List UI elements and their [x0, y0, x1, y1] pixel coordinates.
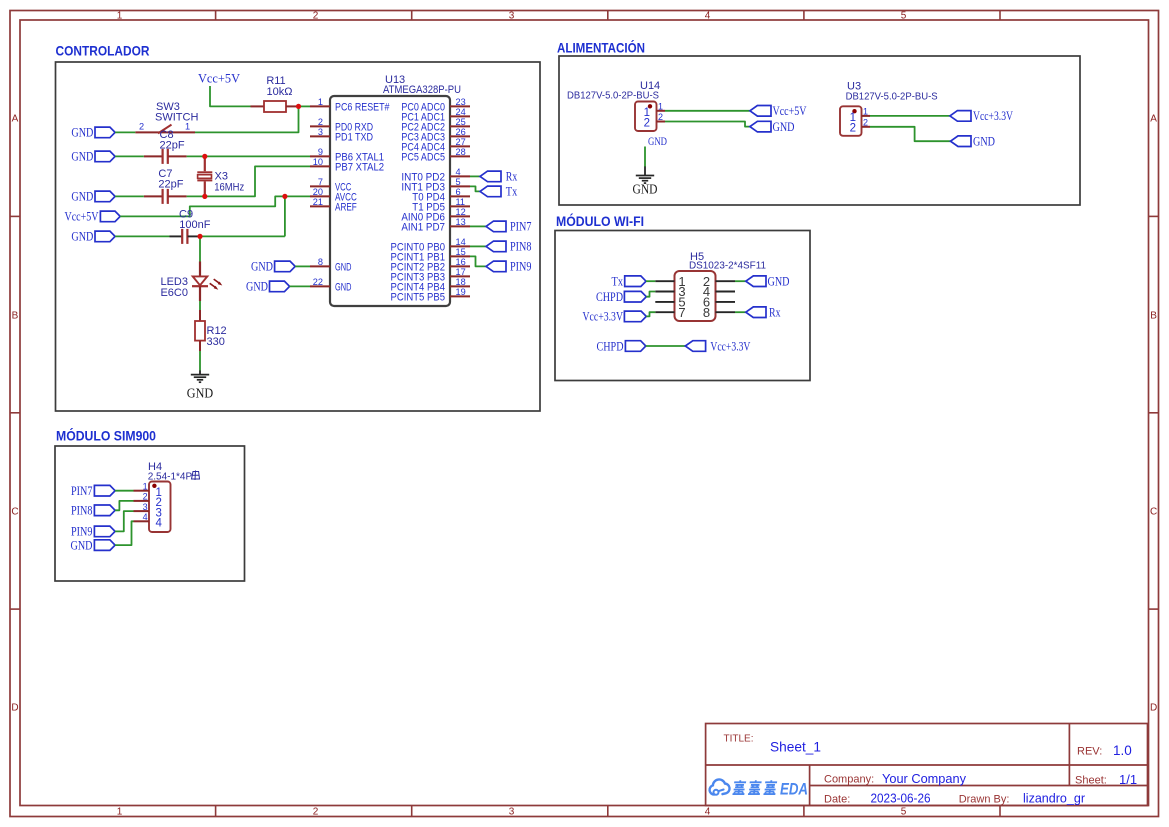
- svg-text:PC6 RESET#: PC6 RESET#: [335, 101, 390, 113]
- junction X3 bottom: [202, 194, 207, 199]
- svg-text:GND: GND: [768, 275, 790, 289]
- company label: [824, 774, 874, 786]
- svg-text:21: 21: [313, 197, 323, 207]
- svg-text:26: 26: [456, 127, 466, 137]
- connector U14: [567, 80, 665, 131]
- wire SW3 to reset net: [195, 106, 299, 132]
- svg-text:25: 25: [456, 117, 466, 127]
- svg-text:GND: GND: [251, 260, 273, 274]
- svg-text:GND: GND: [71, 150, 93, 164]
- svg-text:4: 4: [705, 806, 711, 817]
- rev label: [1077, 746, 1102, 758]
- svg-text:2: 2: [658, 112, 663, 122]
- junction C9 node: [197, 234, 202, 239]
- section box MODULO SIM900: [55, 446, 245, 581]
- port Vcc+3.3V tie: [685, 339, 750, 353]
- wire GND to C7: [115, 195, 144, 197]
- IC U13 ATMEGA328P-PU: [310, 74, 470, 306]
- svg-text:Sheet:: Sheet:: [1075, 775, 1107, 787]
- svg-text:lizandro_gr: lizandro_gr: [1023, 792, 1085, 806]
- svg-text:Rx: Rx: [506, 170, 518, 184]
- wire U3 pin2 to GND: [870, 127, 951, 141]
- svg-text:CHPD: CHPD: [597, 339, 624, 353]
- drawnby label: [959, 794, 1010, 806]
- svg-text:TITLE:: TITLE:: [724, 734, 754, 745]
- wire C7 to XTAL2 jog: [187, 166, 310, 196]
- wire pin5 to Tx: [470, 186, 480, 191]
- svg-text:2: 2: [143, 492, 148, 502]
- svg-text:2: 2: [139, 122, 144, 132]
- crystal X3: [197, 156, 244, 196]
- company value: [882, 772, 967, 786]
- svg-text:B: B: [1150, 311, 1157, 322]
- wire U14 pin1 to Vcc+5V: [665, 110, 750, 112]
- svg-text:PD1 TXD: PD1 TXD: [335, 131, 373, 143]
- section box MODULO WI-FI: [555, 231, 810, 381]
- port CHPD H5: [596, 290, 646, 304]
- wire Vcc+5V to AVCC: [120, 196, 310, 216]
- svg-text:Drawn By:: Drawn By:: [959, 794, 1010, 806]
- power flag Vcc+5V: [198, 72, 240, 86]
- LED LED3: [160, 262, 222, 302]
- capacitor C7: [144, 168, 187, 204]
- svg-text:GND: GND: [633, 181, 658, 196]
- svg-text:GND: GND: [71, 230, 93, 244]
- svg-text:B: B: [12, 311, 19, 322]
- svg-text:Rx: Rx: [769, 306, 781, 320]
- svg-text:3: 3: [318, 127, 323, 137]
- junction AVCC node: [282, 194, 287, 199]
- svg-text:1: 1: [318, 97, 323, 107]
- wire U14 to ground: [644, 147, 646, 168]
- logo JLC EDA: [710, 779, 808, 798]
- svg-text:Vcc+3.3V: Vcc+3.3V: [710, 339, 750, 353]
- port GND pin8: [251, 260, 295, 274]
- svg-text:12: 12: [456, 207, 466, 217]
- wire PIN9 to H4 pin3: [115, 511, 133, 531]
- port Rx H5: [746, 306, 781, 320]
- connector H4: [134, 461, 200, 532]
- svg-text:330: 330: [207, 336, 225, 348]
- date value: [871, 792, 931, 806]
- svg-text:A: A: [1150, 114, 1157, 125]
- svg-text:AREF: AREF: [335, 201, 357, 213]
- date label: [824, 794, 850, 806]
- svg-text:GND: GND: [773, 120, 795, 134]
- wire pin13 to PIN7: [470, 225, 486, 227]
- svg-text:4: 4: [156, 518, 163, 530]
- svg-text:GND: GND: [335, 261, 351, 273]
- svg-text:23: 23: [456, 97, 466, 107]
- svg-text:GND: GND: [71, 538, 93, 552]
- port Vcc+3.3V U3: [950, 109, 1013, 123]
- port PIN9: [486, 260, 532, 274]
- svg-text:GND: GND: [648, 136, 667, 148]
- sheet value: [1119, 772, 1137, 787]
- wire U14 pin2 to GND: [665, 122, 750, 127]
- svg-text:PIN8: PIN8: [71, 504, 93, 518]
- svg-text:2: 2: [863, 117, 868, 127]
- svg-text:14: 14: [456, 237, 466, 247]
- svg-text:Vcc+5V: Vcc+5V: [65, 209, 99, 223]
- svg-text:1: 1: [185, 122, 190, 132]
- resistor R11: [251, 75, 299, 112]
- svg-text:4: 4: [143, 512, 148, 522]
- svg-text:16: 16: [456, 257, 466, 267]
- port GND pin22: [246, 280, 290, 294]
- section title ALIMENTACION: [557, 38, 645, 55]
- wire PIN7 to H4 pin1: [115, 490, 133, 492]
- svg-text:15: 15: [456, 247, 466, 257]
- svg-text:PB7 XTAL2: PB7 XTAL2: [335, 161, 384, 173]
- wire pin16 to PIN9: [470, 256, 486, 266]
- port GND H5: [746, 275, 790, 289]
- svg-text:GND: GND: [71, 190, 93, 204]
- svg-text:GND: GND: [335, 281, 351, 293]
- wire U3 pin1 to Vcc+3.3V: [870, 115, 950, 117]
- svg-text:28: 28: [456, 147, 466, 157]
- svg-text:PIN7: PIN7: [71, 484, 93, 498]
- wire GND port to SW3: [115, 131, 135, 133]
- switch SW3: [135, 101, 198, 133]
- wire pin14 to PIN8: [470, 245, 486, 247]
- svg-text:1: 1: [143, 482, 148, 492]
- sheet label: [1075, 775, 1107, 787]
- svg-text:1: 1: [117, 806, 123, 817]
- wire H5 pin8 to Rx: [735, 311, 746, 313]
- svg-text:Vcc+5V: Vcc+5V: [773, 104, 807, 118]
- svg-text:2: 2: [313, 806, 319, 817]
- svg-text:2023-06-26: 2023-06-26: [871, 792, 931, 806]
- wire GND to C9: [115, 235, 169, 237]
- svg-text:MÓDULO WI-FI: MÓDULO WI-FI: [556, 212, 644, 229]
- svg-text:1: 1: [658, 102, 663, 112]
- svg-text:C: C: [11, 507, 18, 518]
- svg-text:A: A: [12, 114, 19, 125]
- svg-text:SWITCH: SWITCH: [155, 112, 198, 124]
- svg-text:PIN9: PIN9: [71, 525, 93, 539]
- wire LED3 to R12: [199, 301, 201, 310]
- port Tx H5: [612, 275, 647, 289]
- svg-text:GND: GND: [187, 385, 214, 400]
- wire GND port to pin22: [290, 285, 310, 287]
- svg-text:GND: GND: [973, 135, 995, 149]
- wire H5 pin2 to GND: [735, 280, 746, 282]
- wire R12 to ground: [199, 351, 201, 371]
- port Vcc+3.3V H5: [583, 309, 647, 324]
- svg-text:PCINT5 PB5: PCINT5 PB5: [391, 291, 446, 303]
- svg-text:4: 4: [705, 11, 711, 22]
- svg-text:Vcc+3.3V: Vcc+3.3V: [973, 109, 1013, 123]
- svg-text:4: 4: [456, 167, 461, 177]
- svg-text:Vcc+3.3V: Vcc+3.3V: [583, 309, 624, 324]
- port PIN7 H4: [71, 484, 115, 498]
- wire GND port to pin8: [295, 265, 310, 267]
- svg-text:GND: GND: [71, 126, 93, 140]
- title label: [724, 734, 754, 745]
- wire Tx to H5 pin1: [646, 280, 655, 282]
- sheet name: [770, 739, 821, 755]
- svg-text:D: D: [1150, 703, 1157, 714]
- svg-text:2: 2: [313, 11, 319, 22]
- port Vcc+5V row4: [65, 209, 121, 223]
- svg-text:8: 8: [703, 305, 710, 320]
- wire GND to C8: [115, 155, 144, 157]
- wire R11 to U13 pin1: [299, 105, 311, 107]
- svg-text:E6C0: E6C0: [160, 287, 188, 299]
- connector U3: [840, 81, 938, 136]
- svg-text:17: 17: [456, 267, 466, 277]
- svg-text:5: 5: [901, 806, 907, 817]
- net label GND U14: [648, 136, 667, 148]
- svg-text:11: 11: [456, 197, 466, 207]
- connector H5: [655, 251, 766, 321]
- svg-text:19: 19: [456, 287, 466, 297]
- svg-text:2: 2: [644, 117, 650, 129]
- svg-text:22: 22: [313, 277, 323, 287]
- svg-text:GND: GND: [246, 280, 268, 294]
- section box ALIMENTACION: [559, 56, 1080, 205]
- svg-text:1/1: 1/1: [1119, 772, 1137, 787]
- svg-text:100nF: 100nF: [179, 219, 210, 231]
- svg-text:3: 3: [509, 11, 515, 22]
- wire Vcc+5V to R11: [210, 86, 251, 106]
- port GND U14: [750, 120, 795, 134]
- svg-text:3: 3: [143, 502, 148, 512]
- junction X3 top: [202, 154, 207, 159]
- title block grid: [706, 724, 1148, 806]
- port Tx: [480, 185, 518, 199]
- svg-text:ALIMENTACIÓN: ALIMENTACIÓN: [557, 38, 645, 55]
- svg-text:1.0: 1.0: [1113, 743, 1132, 758]
- svg-text:2: 2: [318, 117, 323, 127]
- wire GND to H4 pin4: [115, 521, 133, 545]
- svg-text:DB127V-5.0-2P-BU-S: DB127V-5.0-2P-BU-S: [846, 91, 938, 102]
- svg-text:27: 27: [456, 137, 466, 147]
- svg-text:7: 7: [318, 177, 323, 187]
- svg-text:5: 5: [456, 177, 461, 187]
- svg-text:PIN9: PIN9: [510, 260, 532, 274]
- section box CONTROLADOR: [56, 62, 541, 411]
- svg-text:10kΩ: 10kΩ: [267, 86, 293, 98]
- svg-text:REV:: REV:: [1077, 746, 1102, 758]
- svg-text:7: 7: [678, 305, 685, 320]
- port PIN9 H4: [71, 525, 115, 539]
- port GND row1: [71, 126, 115, 140]
- svg-text:MÓDULO SIM900: MÓDULO SIM900: [56, 427, 156, 444]
- junction at R11 output: [296, 104, 301, 109]
- wire CHPD to H5 pin3: [646, 292, 655, 297]
- svg-text:PIN8: PIN8: [510, 240, 532, 254]
- wire Vcc+3.3V to H5 pin7: [646, 312, 655, 316]
- svg-text:Your Company: Your Company: [882, 772, 967, 786]
- svg-text:1: 1: [863, 107, 868, 117]
- svg-text:PC5 ADC5: PC5 ADC5: [401, 151, 445, 163]
- capacitor C8: [144, 129, 187, 164]
- ground symbol U14: [633, 167, 658, 197]
- svg-text:16MHz: 16MHz: [214, 182, 244, 194]
- svg-text:20: 20: [313, 187, 323, 197]
- svg-text:24: 24: [456, 107, 466, 117]
- svg-text:CONTROLADOR: CONTROLADOR: [56, 43, 150, 59]
- svg-text:22pF: 22pF: [158, 179, 183, 191]
- port GND H4: [71, 538, 116, 552]
- section title MODULO WI-FI: [556, 212, 644, 229]
- svg-text:Date:: Date:: [824, 794, 850, 806]
- svg-text:13: 13: [456, 217, 466, 227]
- svg-text:DS1023-2*4SF11: DS1023-2*4SF11: [689, 261, 766, 272]
- svg-text:Company:: Company:: [824, 774, 874, 786]
- svg-text:PIN7: PIN7: [510, 220, 532, 234]
- svg-text:DB127V-5.0-2P-BU-S: DB127V-5.0-2P-BU-S: [567, 90, 659, 101]
- resistor R12: [195, 310, 227, 351]
- svg-text:9: 9: [318, 147, 323, 157]
- svg-text:Sheet_1: Sheet_1: [770, 739, 821, 755]
- svg-text:Tx: Tx: [506, 185, 518, 199]
- svg-text:Tx: Tx: [612, 275, 624, 289]
- svg-text:C: C: [1150, 507, 1157, 518]
- ground symbol controller: [187, 370, 214, 400]
- svg-text:D: D: [11, 703, 18, 714]
- port PIN8 H4: [71, 504, 115, 518]
- port GND row2: [71, 150, 115, 164]
- wire C9 node down to LED3: [199, 236, 201, 261]
- svg-text:AIN1 PD7: AIN1 PD7: [401, 221, 445, 233]
- svg-text:2: 2: [850, 122, 856, 134]
- wire CHPD tie: [646, 345, 686, 347]
- port GND row5: [71, 230, 115, 244]
- svg-text:6: 6: [456, 187, 461, 197]
- svg-text:ATMEGA328P-PU: ATMEGA328P-PU: [383, 84, 461, 96]
- drawnby value: [1023, 792, 1085, 806]
- svg-text:8: 8: [318, 257, 323, 267]
- wire C9 to AVCC node: [200, 235, 285, 237]
- svg-text:1: 1: [117, 11, 123, 22]
- port Vcc+5V U14: [750, 104, 807, 118]
- wire pin4 to Rx: [470, 175, 480, 177]
- port GND row3: [71, 190, 115, 204]
- svg-text:3: 3: [509, 806, 515, 817]
- svg-text:5: 5: [901, 11, 907, 22]
- svg-text:Vcc+5V: Vcc+5V: [198, 72, 240, 86]
- port GND U3: [951, 135, 996, 149]
- section title CONTROLADOR: [56, 43, 150, 59]
- wire PIN8 to H4 pin2: [115, 501, 133, 510]
- capacitor C9: [170, 209, 211, 244]
- svg-text:10: 10: [313, 157, 323, 167]
- port CHPD tie: [597, 339, 646, 353]
- port PIN7: [486, 220, 532, 234]
- rev value: [1113, 743, 1132, 758]
- wire AVCC node down to C9: [284, 196, 286, 236]
- svg-text:18: 18: [456, 277, 466, 287]
- port PIN8: [486, 240, 532, 254]
- svg-text:EDA: EDA: [780, 779, 808, 798]
- svg-text:CHPD: CHPD: [596, 290, 623, 304]
- section title MODULO SIM900: [56, 427, 156, 444]
- wire C8 to U13 pin9 XTAL1: [187, 155, 310, 157]
- port Rx: [480, 170, 518, 184]
